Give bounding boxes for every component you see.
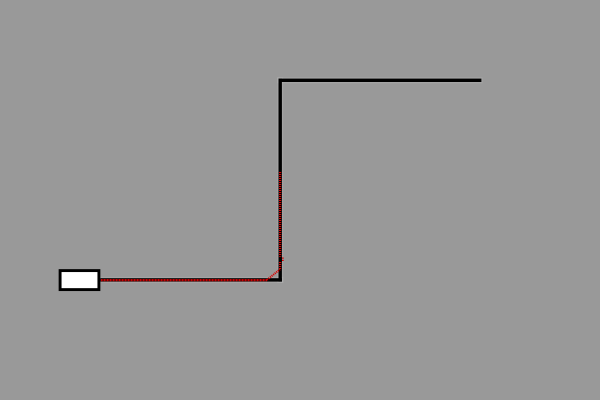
red route: vertical upper segment — [279, 172, 281, 257]
wire: vertical segment — [279, 79, 282, 282]
wire: bottom horizontal segment — [100, 278, 282, 281]
halo under vertical wire — [277, 77, 283, 283]
junction (bare wire at tap point) — [279, 257, 282, 262]
wire: top horizontal segment — [279, 79, 482, 82]
halo under bottom wire — [100, 277, 283, 283]
red route: horizontal segment — [101, 279, 267, 281]
red route: vertical lower segment — [279, 262, 281, 270]
component U1 (white box) — [60, 271, 99, 290]
halo under top wire — [277, 77, 482, 83]
red route: diagonal corner cut — [267, 269, 280, 280]
red route: jog dots beside junction — [282, 258, 284, 259]
